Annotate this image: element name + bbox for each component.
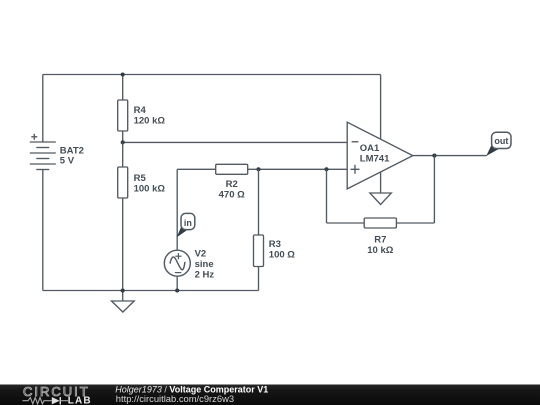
svg-text:10 kΩ: 10 kΩ [367, 245, 393, 256]
node junction R2/R3/plus rail [256, 167, 260, 171]
resistor R3 100 [254, 169, 296, 290]
svg-text:sine: sine [195, 259, 214, 270]
wire output [413, 155, 487, 157]
svg-text:R5: R5 [134, 173, 147, 184]
svg-text:R4: R4 [134, 105, 147, 116]
node junction feedback / plus rail [324, 167, 328, 171]
svg-text:http://circuitlab.com/c9rz6w3: http://circuitlab.com/c9rz6w3 [116, 393, 234, 404]
wire left rail bottom [42, 170, 44, 291]
svg-text:R3: R3 [269, 239, 281, 250]
ground op-amp [370, 193, 391, 205]
resistor R2 470 [177, 164, 258, 200]
wire left rail top [42, 75, 44, 143]
resistor R5 100k [118, 142, 166, 290]
op-amp OA1 LM741 [347, 122, 413, 189]
wire op-amp Vminus stub [380, 172, 382, 193]
svg-text:LAB: LAB [68, 396, 92, 405]
ground main [112, 291, 135, 313]
footer bar [0, 385, 540, 405]
svg-text:R2: R2 [226, 179, 238, 190]
node junction output / feedback [432, 154, 436, 158]
resistor R7 10k [327, 218, 435, 256]
svg-text:in: in [184, 218, 192, 228]
svg-text:out: out [494, 136, 508, 146]
battery BAT2 5V [30, 134, 84, 170]
node junction top rail / R4 [121, 72, 125, 76]
wire feedback left vertical [326, 169, 328, 223]
wire plus input rail [259, 168, 348, 170]
node junction V2 / bottom rail [175, 288, 179, 292]
wire bottom rail [43, 290, 259, 292]
wire V2 bottom [176, 276, 178, 291]
svg-text:5 V: 5 V [60, 155, 75, 166]
wire top rail [43, 74, 381, 76]
svg-text:100 kΩ: 100 kΩ [134, 183, 166, 194]
logo CircuitLab [23, 384, 92, 405]
wire supply drop [380, 75, 382, 140]
node junction ground / bottom rail [121, 288, 125, 292]
wire feedback right vertical [433, 156, 435, 223]
voltage source V2 sine 2Hz [164, 249, 214, 281]
svg-text:R7: R7 [374, 234, 386, 245]
svg-text:LM741: LM741 [360, 154, 390, 165]
wire minus input rail [123, 141, 348, 143]
svg-text:V2: V2 [195, 249, 207, 260]
svg-text:OA1: OA1 [360, 143, 380, 154]
node junction R4/R5/minus rail [121, 140, 125, 144]
svg-text:2 Hz: 2 Hz [195, 270, 215, 281]
resistor R4 120k [118, 75, 166, 143]
svg-text:100 Ω: 100 Ω [269, 250, 295, 261]
wire in column [176, 169, 178, 250]
net flag out [486, 132, 511, 156]
svg-text:470 Ω: 470 Ω [219, 190, 245, 201]
net flag in [177, 213, 195, 237]
svg-text:120 kΩ: 120 kΩ [134, 115, 166, 126]
